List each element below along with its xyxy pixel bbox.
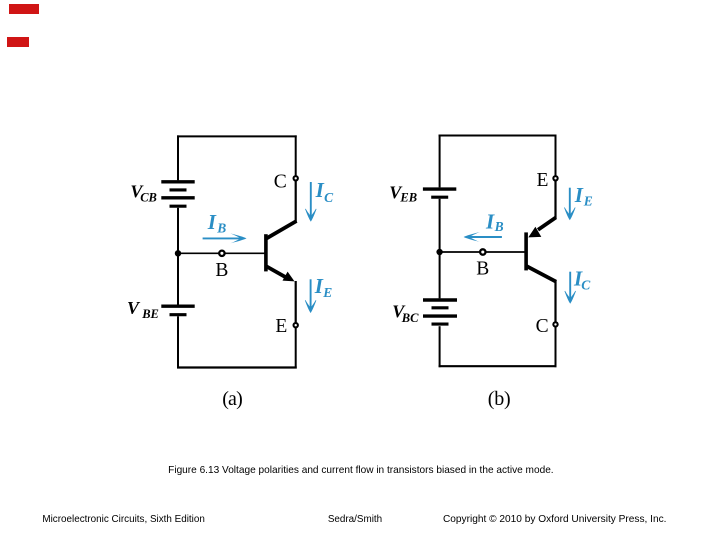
terminal E (open circle) — [294, 323, 298, 327]
svg-text:B: B — [216, 220, 226, 235]
label I_E (a) — [314, 274, 333, 300]
svg-text:E: E — [322, 285, 332, 300]
junction dot on (b) left wire — [436, 249, 442, 255]
wire: (a) left vertical, top segment — [177, 135, 179, 180]
current arrow I_C (b) pointing down — [565, 272, 576, 303]
svg-text:B: B — [215, 260, 228, 281]
current arrow I_E (a) pointing down — [305, 279, 316, 312]
wire: E terminal down to emitter diagonal — [554, 181, 556, 219]
wire: (b) top horizontal — [439, 135, 557, 137]
wire: C terminal down to collector diagonal — [295, 181, 297, 223]
svg-text:E: E — [537, 170, 549, 191]
battery V_BE (one cell) — [161, 306, 194, 315]
wire: collector diagonal down to C terminal — [554, 280, 556, 322]
label I_C (b) — [573, 267, 591, 293]
svg-text:I: I — [314, 274, 324, 298]
svg-text:C: C — [581, 278, 591, 293]
svg-text:CB: CB — [140, 191, 157, 205]
wire: (b) left vertical, bottom segment — [439, 326, 441, 367]
svg-text:C: C — [324, 190, 334, 205]
svg-text:(b): (b) — [488, 388, 511, 410]
svg-text:B: B — [494, 219, 504, 234]
terminal E (b) open circle — [553, 176, 557, 180]
svg-text:I: I — [574, 183, 584, 207]
terminal C (open circle) — [294, 176, 298, 180]
transistor Q1 (npn) collector diagonal — [266, 221, 297, 239]
svg-text:BC: BC — [401, 311, 419, 325]
red marker bar 1 (top-left) — [9, 4, 39, 14]
current arrow I_B (b) pointing left — [464, 232, 502, 242]
svg-text:C: C — [536, 316, 549, 337]
battery V_CB (two cells) — [161, 182, 194, 206]
transistor Q2 base bar — [524, 232, 528, 270]
svg-text:Figure 6.13 Voltage polarities: Figure 6.13 Voltage polarities and curre… — [168, 465, 553, 476]
svg-text:E: E — [275, 316, 287, 337]
svg-text:(a): (a) — [222, 388, 242, 410]
current arrow I_C (a) pointing down — [305, 182, 316, 221]
wire: (b) bottom horizontal — [439, 365, 557, 367]
svg-text:C: C — [274, 172, 287, 193]
node B (b) open circle — [480, 249, 485, 254]
wire: (a) top horizontal — [177, 135, 297, 137]
svg-text:E: E — [583, 193, 593, 208]
svg-text:I: I — [485, 210, 495, 234]
red marker bar 2 (top-left) — [7, 37, 29, 47]
battery V_BC (two cells) — [423, 300, 457, 324]
wire: (a) left vertical, bottom segment — [177, 316, 179, 368]
transistor Q2 collector diagonal — [526, 266, 556, 282]
svg-text:BE: BE — [141, 307, 159, 321]
junction dot on (a) left wire — [175, 250, 181, 256]
terminal C (b) open circle — [553, 322, 557, 326]
svg-text:B: B — [476, 259, 489, 280]
svg-text:I: I — [315, 178, 325, 202]
current arrow I_B (a) pointing right — [203, 233, 247, 243]
wire: emitter arrowhead down to E terminal — [295, 281, 297, 323]
wire: (a) left vertical, middle segment — [177, 208, 179, 305]
transistor Q2 (pnp) emitter diagonal — [538, 217, 556, 229]
wire: (a) base horizontal — [178, 252, 265, 254]
label I_C (a) — [315, 178, 335, 205]
wire: E terminal down to bottom wire — [295, 328, 297, 369]
svg-text:Copyright © 2010 by Oxford Uni: Copyright © 2010 by Oxford University Pr… — [443, 514, 667, 525]
current arrow I_E (b) pointing down — [564, 188, 575, 220]
wire: C terminal down to bottom wire — [555, 327, 557, 368]
label V_BE — [127, 298, 159, 321]
svg-text:Sedra/Smith: Sedra/Smith — [328, 514, 382, 525]
svg-text:Microelectronic Circuits, Sixt: Microelectronic Circuits, Sixth Edition — [42, 514, 204, 525]
label V_BC — [392, 302, 419, 325]
transistor Q2 emitter arrowhead (points into base) — [528, 227, 541, 238]
label I_E (b) — [574, 183, 593, 208]
battery V_EB (one cell) — [423, 189, 456, 197]
wire: (b) left vertical, top segment — [439, 135, 441, 188]
transistor Q1 base bar — [264, 234, 268, 271]
wire: (b) right vertical above E terminal — [555, 135, 557, 177]
transistor Q1 emitter arrowhead — [283, 272, 295, 282]
svg-text:I: I — [207, 210, 217, 234]
transistor Q1 emitter diagonal — [266, 266, 289, 279]
wire: (b) base horizontal — [440, 251, 525, 253]
wire: (a) bottom horizontal — [177, 366, 297, 368]
wire: (b) left vertical, middle segment — [439, 199, 441, 299]
node B (a) open circle — [219, 251, 224, 256]
svg-text:EB: EB — [399, 190, 417, 204]
label V_CB — [130, 181, 156, 204]
label V_EB — [389, 182, 417, 204]
label I_B (a) — [207, 210, 227, 236]
label I_B (b) — [485, 210, 504, 234]
wire: (a) right vertical above C terminal — [295, 135, 297, 176]
svg-text:V: V — [127, 298, 141, 318]
